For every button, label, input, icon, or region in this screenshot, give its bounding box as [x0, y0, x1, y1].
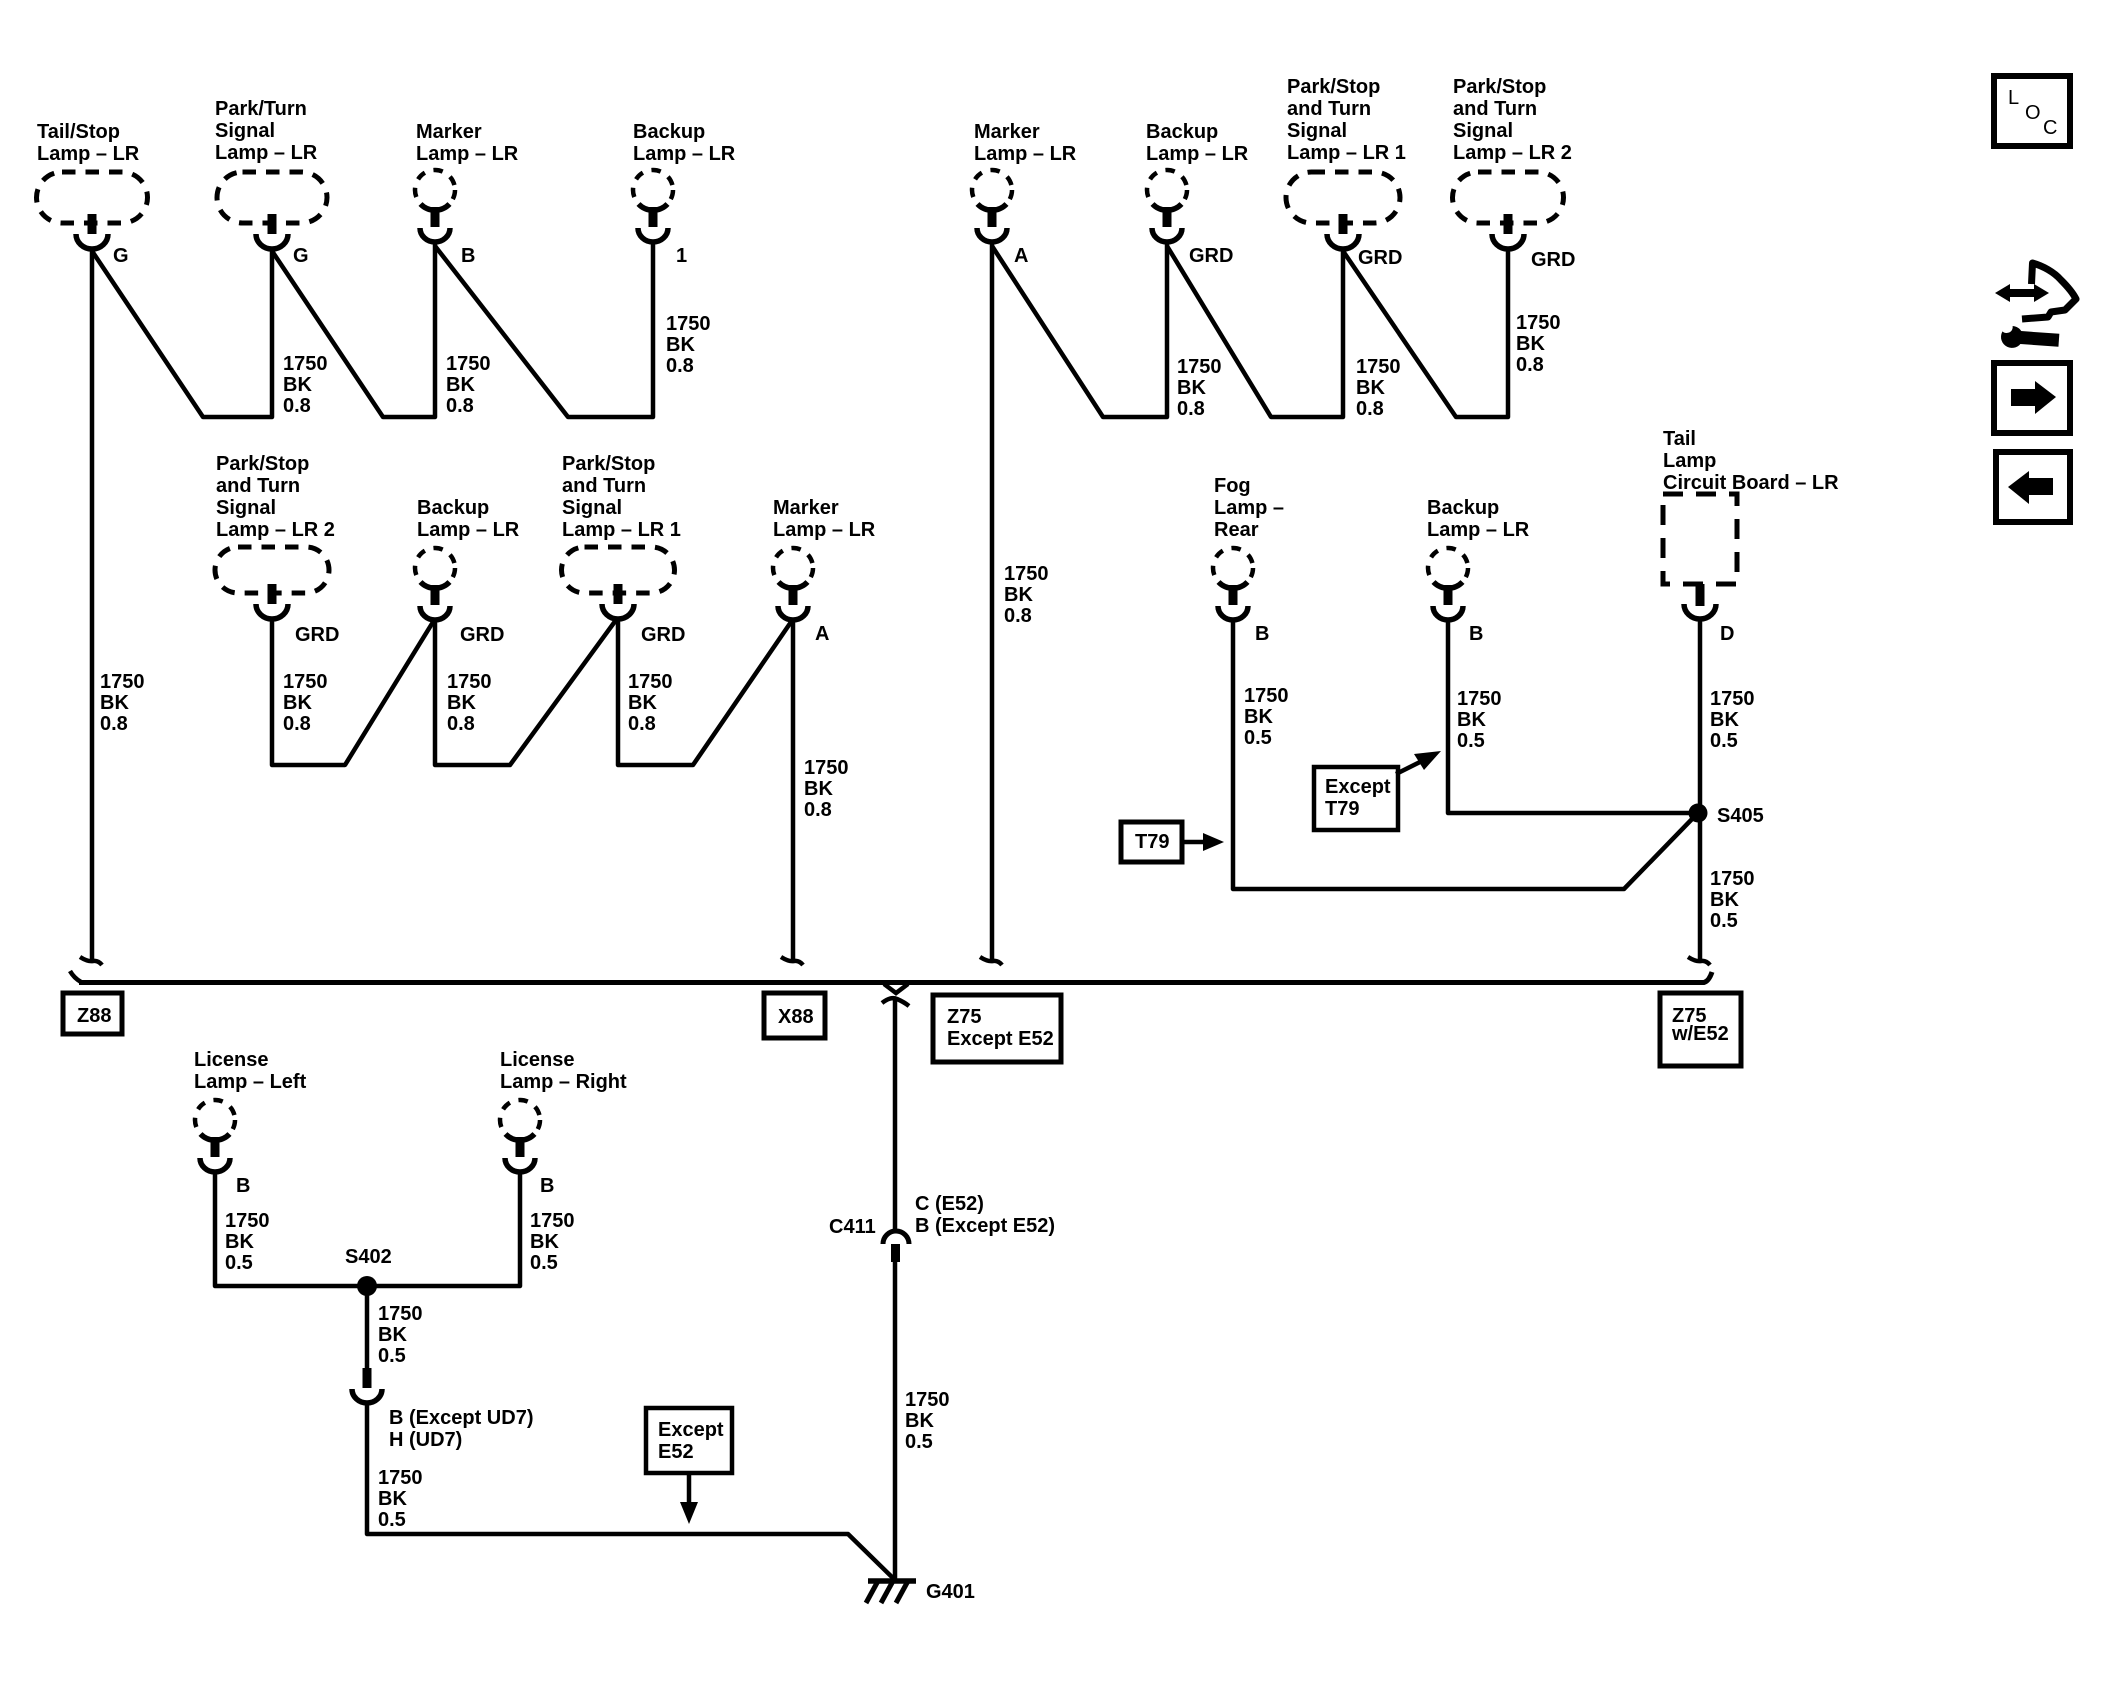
- svg-text:B (Except UD7): B (Except UD7): [389, 1407, 533, 1429]
- svg-text:Except: Except: [658, 1419, 724, 1441]
- wire label 1750 BK 0.8 at Park/Turn: [283, 353, 328, 417]
- wire splice Backup-GRD to Park/Stop LR1: [1167, 246, 1343, 417]
- lamp Park/Stop and Turn Signal Lamp - LR 1: [1286, 76, 1406, 249]
- wire Tail/Stop ground drop to bus (1750 BK 0.8): [90, 249, 95, 961]
- svg-text:Signal: Signal: [1287, 120, 1347, 142]
- svg-text:BK: BK: [530, 1231, 559, 1253]
- svg-text:Lamp – Right: Lamp – Right: [500, 1071, 627, 1093]
- wire label 1750 BK 0.5 at Backup B: [1457, 688, 1502, 752]
- wire S402 down to inline connector: [365, 1286, 370, 1370]
- net box Z88: [63, 993, 122, 1034]
- svg-text:C411: C411: [829, 1216, 876, 1238]
- splice S402: [357, 1276, 377, 1296]
- wire splice Marker-A to Backup-GRD: [992, 243, 1167, 417]
- wire label 1750 BK 0.8 at Backup row2: [447, 671, 492, 735]
- svg-text:G: G: [113, 245, 129, 267]
- icon back arrow box: [1996, 452, 2070, 522]
- lamp Backup Lamp - LR (row2 left): [415, 497, 520, 620]
- ground bus wire Z88/X88/Z75: [70, 971, 1712, 993]
- wire splice Tail/Stop to Park/Turn: [92, 249, 272, 417]
- svg-text:B: B: [236, 1175, 250, 1197]
- wire label 1750 BK 0.8 at Marker A drop: [1004, 563, 1049, 627]
- lamp Fog Lamp - Rear: [1213, 475, 1284, 620]
- net box X88: [764, 993, 825, 1038]
- svg-text:Backup: Backup: [417, 497, 489, 519]
- svg-text:Park/Stop: Park/Stop: [1453, 76, 1546, 98]
- svg-text:Lamp – LR 1: Lamp – LR 1: [562, 519, 681, 541]
- wire label 1750 BK 0.8 at LR1 row2: [628, 671, 673, 735]
- wire label 1750 BK 0.5 to G401: [378, 1467, 423, 1531]
- svg-text:Lamp – LR: Lamp – LR: [417, 519, 520, 541]
- wire Fog Lamp ground (1750 BK 0.5) to S405: [1233, 620, 1694, 889]
- svg-text:Lamp –: Lamp –: [1214, 497, 1284, 519]
- wire splice Park/Stop LR2 row2 to Backup row2: [272, 619, 433, 765]
- svg-text:1750: 1750: [225, 1210, 270, 1232]
- wire splice Park/Stop LR1 to LR2: [1343, 249, 1508, 417]
- svg-text:Park/Stop: Park/Stop: [1287, 76, 1380, 98]
- svg-text:1750: 1750: [1244, 685, 1289, 707]
- wire label 1750 BK 0.5 at board D: [1710, 688, 1755, 752]
- svg-text:0.5: 0.5: [225, 1252, 253, 1274]
- lamp License Lamp - Right: [500, 1049, 627, 1172]
- svg-text:Marker: Marker: [773, 497, 839, 519]
- splice S405: [1689, 804, 1708, 823]
- svg-text:Lamp – Left: Lamp – Left: [194, 1071, 307, 1093]
- wire label 1750 BK 0.5 at License Right: [530, 1210, 575, 1274]
- svg-text:BK: BK: [1516, 333, 1545, 355]
- svg-text:1750: 1750: [1710, 688, 1755, 710]
- svg-text:BK: BK: [1177, 377, 1206, 399]
- svg-text:H (UD7): H (UD7): [389, 1429, 462, 1451]
- ground G401: [866, 1581, 916, 1603]
- svg-text:Backup: Backup: [1146, 121, 1218, 143]
- net box Z75 Except E52: [933, 995, 1061, 1062]
- svg-text:Park/Turn: Park/Turn: [215, 98, 307, 120]
- svg-text:GRD: GRD: [295, 624, 339, 646]
- svg-text:Rear: Rear: [1214, 519, 1259, 541]
- connector hook marker A wire end: [980, 957, 1002, 965]
- inline connector below S402: [352, 1368, 382, 1403]
- net box T79: [1121, 822, 1182, 862]
- Except E52 arrow: [680, 1473, 698, 1524]
- svg-text:Lamp – LR: Lamp – LR: [37, 143, 140, 165]
- wire label 1750 BK 0.5 below C411: [905, 1389, 950, 1453]
- wire label 1750 BK 0.8 at Marker row2: [804, 757, 849, 821]
- svg-text:Except E52: Except E52: [947, 1028, 1054, 1050]
- T79 arrow: [1184, 833, 1224, 851]
- connector hook circuit board wire end: [1688, 957, 1710, 965]
- svg-text:1750: 1750: [628, 671, 673, 693]
- svg-text:and Turn: and Turn: [1453, 98, 1537, 120]
- svg-text:BK: BK: [283, 692, 312, 714]
- svg-text:and Turn: and Turn: [216, 475, 300, 497]
- svg-text:0.5: 0.5: [378, 1345, 406, 1367]
- svg-text:Lamp – LR: Lamp – LR: [773, 519, 876, 541]
- svg-text:A: A: [1014, 245, 1028, 267]
- svg-text:0.5: 0.5: [1457, 730, 1485, 752]
- svg-text:1: 1: [676, 245, 687, 267]
- net box Z75 w/E52: [1660, 993, 1741, 1066]
- wire label 1750 BK 0.5 below S402: [378, 1303, 423, 1367]
- svg-text:0.8: 0.8: [1004, 605, 1032, 627]
- svg-text:1750: 1750: [1457, 688, 1502, 710]
- svg-text:Marker: Marker: [416, 121, 482, 143]
- lamp Marker Lamp - LR (top right): [972, 121, 1077, 242]
- svg-text:BK: BK: [378, 1324, 407, 1346]
- svg-text:Z75: Z75: [947, 1006, 981, 1028]
- svg-text:1750: 1750: [378, 1303, 423, 1325]
- lamp Marker Lamp - LR (row2): [773, 497, 876, 620]
- svg-text:Except: Except: [1325, 776, 1391, 798]
- svg-text:Lamp: Lamp: [1663, 450, 1716, 472]
- svg-text:0.5: 0.5: [1710, 910, 1738, 932]
- svg-text:B: B: [540, 1175, 554, 1197]
- wire splice Marker to Backup: [435, 243, 653, 417]
- svg-text:Park/Stop: Park/Stop: [216, 453, 309, 475]
- svg-text:D: D: [1720, 623, 1734, 645]
- connector C411: [883, 1231, 909, 1262]
- svg-text:BK: BK: [1457, 709, 1486, 731]
- svg-text:1750: 1750: [530, 1210, 575, 1232]
- svg-text:0.8: 0.8: [1177, 398, 1205, 420]
- svg-text:BK: BK: [628, 692, 657, 714]
- svg-text:BK: BK: [100, 692, 129, 714]
- svg-text:Circuit Board – LR: Circuit Board – LR: [1663, 472, 1839, 494]
- svg-text:BK: BK: [1356, 377, 1385, 399]
- lamp Backup Lamp - LR (row2 right): [1427, 497, 1530, 620]
- svg-text:Lamp – LR: Lamp – LR: [974, 143, 1077, 165]
- lamp Park/Stop and Turn Signal Lamp - LR 1 (row2): [562, 453, 681, 619]
- svg-text:1750: 1750: [666, 313, 711, 335]
- Except T79 arrow: [1396, 751, 1441, 774]
- wire License Right ground (1750 BK 0.5): [367, 1172, 520, 1286]
- svg-text:GRD: GRD: [1531, 249, 1575, 271]
- svg-text:Tail: Tail: [1663, 428, 1696, 450]
- svg-text:Lamp – LR 1: Lamp – LR 1: [1287, 142, 1406, 164]
- wire C411 to ground G401 (1750 BK 0.5): [893, 1262, 898, 1580]
- svg-text:1750: 1750: [1516, 312, 1561, 334]
- svg-text:BK: BK: [1244, 706, 1273, 728]
- svg-text:B (Except E52): B (Except E52): [915, 1215, 1055, 1237]
- svg-text:Lamp – LR: Lamp – LR: [1146, 143, 1249, 165]
- svg-text:1750: 1750: [283, 671, 328, 693]
- svg-text:Backup: Backup: [1427, 497, 1499, 519]
- net box Except T79: [1314, 767, 1398, 830]
- wire label 1750 BK 0.8 at Marker: [446, 353, 491, 417]
- wire Marker-A row2 ground drop to bus (1750 BK 0.8): [791, 620, 796, 961]
- svg-text:License: License: [500, 1049, 574, 1071]
- svg-text:BK: BK: [283, 374, 312, 396]
- net box Except E52: [646, 1408, 732, 1473]
- connector hook marker row2 wire end: [781, 957, 803, 965]
- wire label 1750 BK 0.8 at Backup: [666, 313, 711, 377]
- svg-text:S402: S402: [345, 1246, 392, 1268]
- svg-text:Lamp – LR: Lamp – LR: [633, 143, 736, 165]
- svg-text:License: License: [194, 1049, 268, 1071]
- svg-text:1750: 1750: [905, 1389, 950, 1411]
- svg-text:BK: BK: [804, 778, 833, 800]
- svg-text:1750: 1750: [1004, 563, 1049, 585]
- svg-text:GRD: GRD: [1358, 247, 1402, 269]
- svg-text:0.8: 0.8: [446, 395, 474, 417]
- svg-text:T79: T79: [1325, 798, 1359, 820]
- wire splice Backup row2 to Park/Stop LR1 row2: [435, 620, 616, 765]
- wire splice Park/Stop LR1 row2 to Marker row2: [618, 619, 791, 765]
- svg-text:Signal: Signal: [215, 120, 275, 142]
- svg-text:0.8: 0.8: [1356, 398, 1384, 420]
- svg-text:S405: S405: [1717, 805, 1764, 827]
- wire splice Park/Turn to Marker: [272, 243, 435, 417]
- icon LOC box: [1994, 76, 2070, 146]
- svg-text:and Turn: and Turn: [1287, 98, 1371, 120]
- lamp Park/Stop and Turn Signal Lamp - LR 2: [1453, 76, 1572, 249]
- icon forward arrow box: [1994, 363, 2070, 433]
- icon hotline/navigation: [1995, 263, 2076, 351]
- svg-text:G: G: [293, 245, 309, 267]
- svg-text:BK: BK: [666, 334, 695, 356]
- svg-text:w/E52: w/E52: [1671, 1023, 1729, 1045]
- wire label 1750 BK 0.8 at Park/Stop LR1: [1356, 356, 1401, 420]
- svg-text:X88: X88: [778, 1006, 814, 1028]
- svg-text:A: A: [815, 623, 829, 645]
- svg-text:Marker: Marker: [974, 121, 1040, 143]
- wire Marker-A ground drop to bus (1750 BK 0.8): [990, 243, 995, 961]
- wire bus branch down to C411: [893, 1000, 898, 1231]
- svg-text:BK: BK: [225, 1231, 254, 1253]
- svg-text:0.8: 0.8: [100, 713, 128, 735]
- svg-text:Tail/Stop: Tail/Stop: [37, 121, 120, 143]
- svg-text:Backup: Backup: [633, 121, 705, 143]
- wire License Left ground (1750 BK 0.5): [215, 1172, 367, 1286]
- svg-text:1750: 1750: [804, 757, 849, 779]
- wire label 1750 BK 0.8 at left main drop: [100, 671, 145, 735]
- svg-text:Lamp – LR: Lamp – LR: [1427, 519, 1530, 541]
- svg-text:1750: 1750: [1356, 356, 1401, 378]
- svg-text:BK: BK: [447, 692, 476, 714]
- svg-text:Signal: Signal: [562, 497, 622, 519]
- wire label 1750 BK 0.5 at License Left: [225, 1210, 270, 1274]
- wire label 1750 BK 0.8 at Park/Stop LR2: [1516, 312, 1561, 376]
- svg-text:C (E52): C (E52): [915, 1193, 984, 1215]
- lamp Park/Turn Signal Lamp - LR: [215, 98, 327, 249]
- svg-text:and Turn: and Turn: [562, 475, 646, 497]
- svg-text:Park/Stop: Park/Stop: [562, 453, 655, 475]
- svg-text:0.5: 0.5: [378, 1509, 406, 1531]
- svg-text:Z88: Z88: [77, 1005, 111, 1027]
- connector hook bus branch top: [882, 998, 909, 1006]
- svg-text:GRD: GRD: [460, 624, 504, 646]
- svg-text:B: B: [1255, 623, 1269, 645]
- lamp Tail Lamp Circuit Board - LR: [1663, 428, 1839, 619]
- svg-text:BK: BK: [1710, 889, 1739, 911]
- svg-text:1750: 1750: [378, 1467, 423, 1489]
- svg-text:T79: T79: [1135, 831, 1169, 853]
- svg-text:0.8: 0.8: [1516, 354, 1544, 376]
- svg-text:Fog: Fog: [1214, 475, 1251, 497]
- svg-text:0.5: 0.5: [530, 1252, 558, 1274]
- wire label 1750 BK 0.8 at Backup GRD: [1177, 356, 1222, 420]
- svg-text:0.8: 0.8: [628, 713, 656, 735]
- svg-text:BK: BK: [1710, 709, 1739, 731]
- lamp Marker Lamp - LR (top left): [415, 121, 519, 242]
- svg-text:B: B: [1469, 623, 1483, 645]
- svg-text:1750: 1750: [283, 353, 328, 375]
- wire label 1750 BK 0.8 at LR2 row2: [283, 671, 328, 735]
- svg-text:O: O: [2025, 102, 2041, 124]
- svg-text:BK: BK: [378, 1488, 407, 1510]
- svg-text:0.8: 0.8: [283, 395, 311, 417]
- svg-text:GRD: GRD: [1189, 245, 1233, 267]
- svg-text:B: B: [461, 245, 475, 267]
- svg-text:0.8: 0.8: [666, 355, 694, 377]
- svg-text:1750: 1750: [446, 353, 491, 375]
- wire Backup-B ground (1750 BK 0.5) to S405: [1448, 620, 1692, 813]
- lamp License Lamp - Left: [194, 1049, 307, 1172]
- svg-text:0.5: 0.5: [905, 1431, 933, 1453]
- svg-text:1750: 1750: [100, 671, 145, 693]
- lamp Tail/Stop Lamp - LR: [37, 121, 148, 249]
- svg-text:BK: BK: [1004, 584, 1033, 606]
- svg-text:BK: BK: [905, 1410, 934, 1432]
- svg-text:C: C: [2043, 117, 2057, 139]
- lamp Backup Lamp - LR (top left): [633, 121, 736, 242]
- svg-text:GRD: GRD: [641, 624, 685, 646]
- connector hook left main wire end: [80, 957, 102, 965]
- svg-text:0.8: 0.8: [283, 713, 311, 735]
- svg-text:0.5: 0.5: [1244, 727, 1272, 749]
- svg-text:0.8: 0.8: [447, 713, 475, 735]
- wire label 1750 BK 0.5 at Fog: [1244, 685, 1289, 749]
- lamp Park/Stop and Turn Signal Lamp - LR 2 (row2): [215, 453, 335, 619]
- svg-text:Lamp – LR 2: Lamp – LR 2: [1453, 142, 1572, 164]
- svg-text:Signal: Signal: [1453, 120, 1513, 142]
- svg-text:Signal: Signal: [216, 497, 276, 519]
- lamp Backup Lamp - LR (top right): [1146, 121, 1249, 242]
- svg-text:1750: 1750: [447, 671, 492, 693]
- svg-text:1750: 1750: [1710, 868, 1755, 890]
- svg-text:1750: 1750: [1177, 356, 1222, 378]
- wire label 1750 BK 0.5 below S405: [1710, 868, 1755, 932]
- svg-text:Lamp – LR: Lamp – LR: [416, 143, 519, 165]
- svg-text:L: L: [2008, 87, 2019, 109]
- svg-text:Lamp – LR: Lamp – LR: [215, 142, 318, 164]
- svg-text:Lamp – LR 2: Lamp – LR 2: [216, 519, 335, 541]
- wire Circuit board D ground drop (1750 BK 0.5): [1698, 619, 1703, 961]
- svg-text:G401: G401: [926, 1581, 975, 1603]
- svg-text:BK: BK: [446, 374, 475, 396]
- svg-text:0.8: 0.8: [804, 799, 832, 821]
- svg-text:E52: E52: [658, 1441, 694, 1463]
- wire license ground run to G401: [367, 1403, 894, 1579]
- svg-text:0.5: 0.5: [1710, 730, 1738, 752]
